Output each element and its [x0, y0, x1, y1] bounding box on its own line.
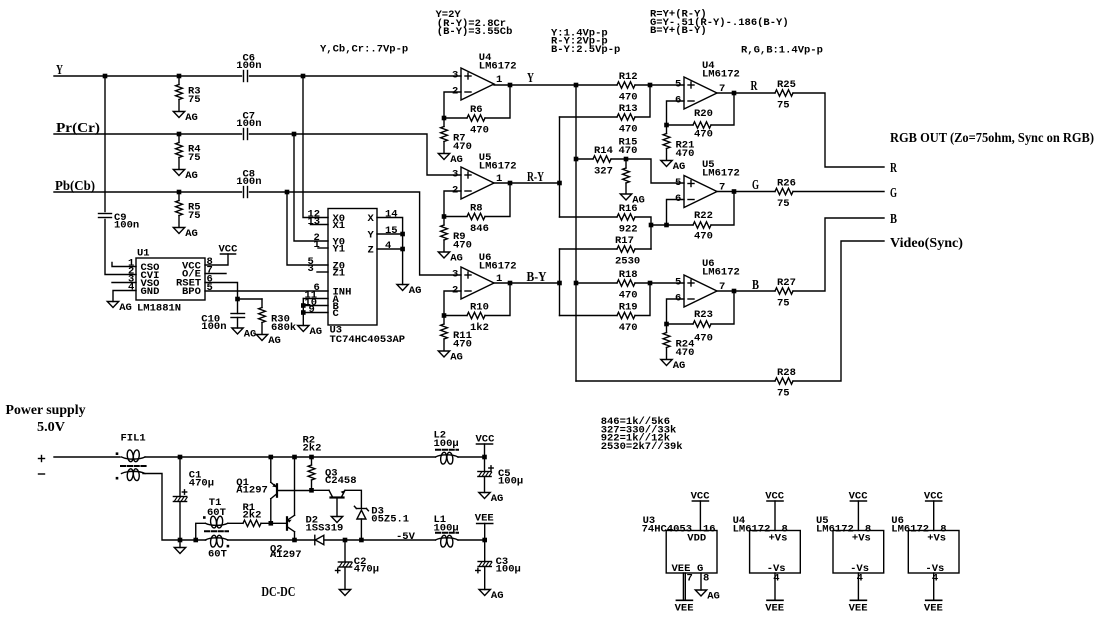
terminal plus	[39, 456, 45, 462]
junction B-Y bus	[557, 281, 562, 286]
wire U5a out R-Y	[494, 182, 560, 184]
junction Y bus top	[574, 83, 579, 88]
wire R17 row	[560, 248, 618, 250]
svg-text:U1: U1	[137, 248, 150, 260]
wire video out	[793, 241, 884, 381]
wire R20 right	[711, 93, 734, 125]
svg-text:RGB OUT (Zo=75ohm, Sync on RGB: RGB OUT (Zo=75ohm, Sync on RGB)	[890, 131, 1094, 146]
svg-text:A1297: A1297	[236, 485, 268, 497]
svg-text:R17: R17	[615, 235, 634, 247]
terminal minus	[39, 473, 45, 475]
wire minus to rail	[143, 474, 180, 541]
phase dot FIL1 bottom	[116, 477, 119, 480]
wire C2 bottom	[344, 567, 346, 590]
svg-text:AG: AG	[185, 112, 198, 124]
svg-text:470: 470	[453, 339, 472, 351]
svg-text:LM6172: LM6172	[816, 524, 854, 536]
capacitor C6	[236, 53, 261, 82]
wire R14 row	[576, 158, 593, 160]
svg-text:470: 470	[694, 129, 713, 141]
svg-text:G: G	[752, 178, 759, 193]
diode D2 1SS319	[306, 515, 344, 545]
wire VCC stem U3	[699, 501, 701, 531]
wire R12 right	[635, 84, 650, 86]
wire VEE stem U4pwr	[774, 573, 776, 600]
junction U4b out	[732, 91, 737, 96]
op-amp U4 second half	[675, 60, 740, 109]
core L2	[436, 449, 458, 451]
resistor R14	[593, 156, 611, 162]
wire C1 stem	[179, 457, 181, 497]
capacitor C9	[99, 214, 112, 218]
svg-text:R10: R10	[470, 302, 489, 314]
transistor Q1 A1297	[236, 477, 311, 499]
svg-text:(B-Y)=3.55Cb: (B-Y)=3.55Cb	[437, 26, 513, 38]
diode D3 zener	[354, 506, 409, 526]
svg-text:AG: AG	[185, 170, 198, 182]
wire VEE stem U3 b	[684, 573, 686, 600]
svg-text:3: 3	[308, 263, 314, 275]
wire C3 stem	[484, 540, 486, 562]
junction T1 left	[193, 538, 198, 543]
wire RSET to R30	[238, 298, 263, 300]
wire Z1 stub	[317, 271, 328, 273]
wire B select	[303, 305, 328, 307]
wire T1 primary left	[196, 523, 206, 540]
ground AG C10	[232, 328, 257, 341]
svg-text:05Z5.1: 05Z5.1	[371, 514, 409, 526]
resistor R5	[176, 192, 201, 227]
wire U4b -in	[667, 101, 685, 125]
ground AG U1 GND	[107, 302, 132, 315]
wire VCC stem U5pwr	[857, 501, 859, 531]
svg-text:VCC: VCC	[219, 244, 239, 256]
junction Pr clamp Y0	[292, 132, 297, 137]
svg-text:15: 15	[385, 225, 398, 237]
IC U3 TC74HC4053AP body	[328, 209, 377, 326]
svg-text:B-Y: B-Y	[527, 270, 547, 285]
resistor R18	[617, 280, 635, 286]
wire R8 right	[485, 183, 510, 217]
svg-text:74HC4053: 74HC4053	[642, 524, 692, 536]
svg-text:X1: X1	[333, 220, 346, 232]
ground frame C2	[339, 590, 350, 596]
svg-text:5: 5	[675, 177, 681, 189]
svg-text:R20: R20	[694, 108, 713, 120]
wire bottom rail left	[180, 539, 206, 541]
wire X1 stub	[311, 224, 329, 226]
svg-text:Y,Cb,Cr:.7Vp-p: Y,Cb,Cr:.7Vp-p	[320, 43, 408, 55]
wire G pin stem	[700, 573, 702, 590]
svg-text:R14: R14	[594, 145, 613, 157]
wire Y1 stub	[318, 247, 328, 249]
svg-text:LM6172: LM6172	[891, 524, 929, 536]
svg-text:4: 4	[773, 573, 779, 585]
svg-text:AG: AG	[409, 285, 422, 297]
wire R1 to Q2 base	[261, 522, 286, 524]
power VEE rail symbol	[475, 513, 494, 525]
resistor R16	[617, 214, 635, 220]
wire U4a out	[494, 84, 617, 86]
ground frame Q3	[331, 517, 342, 523]
svg-text:AG: AG	[185, 228, 198, 240]
phase dot T1 secondary	[227, 545, 230, 548]
svg-text:8: 8	[703, 573, 709, 585]
svg-text:G: G	[890, 186, 897, 201]
ground AG U3 G pin	[695, 590, 720, 603]
wire U1 pin3 VSO stub	[112, 282, 136, 284]
wire Q3 emitter to D3	[345, 490, 361, 508]
svg-text:75: 75	[777, 198, 790, 210]
inductor L2	[436, 452, 459, 464]
svg-text:75: 75	[777, 388, 790, 400]
svg-text:AG: AG	[450, 154, 463, 166]
svg-text:R6: R6	[470, 104, 483, 116]
junction C2 top	[343, 538, 348, 543]
svg-text:470: 470	[470, 125, 489, 137]
svg-text:100n: 100n	[236, 60, 261, 72]
svg-text:R26: R26	[777, 178, 796, 190]
svg-text:R28: R28	[777, 367, 796, 379]
svg-text:14: 14	[385, 209, 398, 221]
resistor R4	[176, 134, 201, 169]
svg-text:922: 922	[619, 224, 638, 236]
svg-text:GND: GND	[141, 286, 160, 298]
ground AG	[438, 154, 463, 167]
wire U6a out B-Y	[494, 282, 560, 284]
resistor R19	[617, 312, 635, 318]
wire plus rail	[145, 456, 435, 458]
wire R20 left	[667, 124, 694, 126]
resistor R6	[467, 115, 485, 121]
power VCC U4pwr	[765, 491, 785, 503]
transformer T1 secondary winding	[205, 535, 228, 547]
wire R8 left	[444, 216, 467, 218]
wire C10 stem	[237, 299, 239, 314]
wire R10 right	[485, 283, 510, 316]
wire R18 row	[576, 282, 617, 284]
resistor R17	[617, 246, 635, 252]
power VCC U6pwr	[924, 491, 944, 503]
svg-text:470µ: 470µ	[189, 478, 214, 490]
junction C select	[301, 310, 306, 315]
wire R14 to G +in	[611, 159, 684, 183]
junction U6b fb node	[664, 322, 669, 327]
svg-text:R25: R25	[777, 79, 796, 91]
junction U5b fb node	[664, 223, 669, 228]
wire R13 up	[635, 85, 650, 117]
wire VCC stem	[484, 444, 486, 457]
op-amp U5 first half	[452, 152, 517, 199]
capacitor C7	[236, 111, 261, 140]
wire X common	[377, 218, 403, 285]
svg-text:100µ: 100µ	[434, 438, 459, 450]
resistor R8	[467, 213, 485, 219]
svg-text:VEE: VEE	[675, 603, 694, 615]
svg-text:R: R	[890, 161, 898, 176]
svg-text:Video(Sync): Video(Sync)	[890, 236, 963, 251]
wire R out	[793, 93, 884, 167]
filter FIL1 bottom winding	[122, 468, 146, 480]
wire U1 pin1 CSO stub	[112, 263, 136, 267]
wire R10 left	[444, 315, 467, 317]
svg-text:FIL1: FIL1	[121, 433, 146, 445]
svg-text:AG: AG	[268, 335, 281, 347]
phase dot T1 primary	[203, 516, 206, 519]
resistor R23	[693, 321, 711, 327]
wire Pb to U6 +in	[250, 192, 462, 275]
wire VEE stem U3 a	[682, 573, 684, 600]
svg-text:Y: Y	[368, 230, 375, 242]
svg-text:327: 327	[594, 166, 613, 178]
wire R2 stem top	[311, 457, 313, 465]
svg-text:-5V: -5V	[396, 531, 416, 543]
svg-text:100µ: 100µ	[498, 476, 523, 488]
svg-text:4: 4	[385, 240, 391, 252]
resistor R22	[693, 222, 711, 228]
svg-text:LM6172: LM6172	[733, 524, 771, 536]
wire VEE stem U5pwr	[857, 573, 859, 600]
resistor R9	[441, 217, 472, 252]
svg-text:AG: AG	[707, 591, 720, 603]
op-amp U6 second half	[675, 258, 740, 307]
svg-text:VEE: VEE	[765, 603, 784, 615]
ground AG	[173, 228, 198, 241]
wire R13 row	[560, 116, 618, 118]
wire R16 right	[635, 217, 651, 249]
junction Z common	[400, 247, 405, 252]
svg-text:13: 13	[308, 216, 321, 228]
svg-text:Y: Y	[527, 71, 534, 86]
ground AG C3	[479, 590, 504, 603]
svg-text:R12: R12	[619, 71, 638, 83]
svg-text:LM6172: LM6172	[479, 161, 517, 173]
svg-text:AG: AG	[491, 590, 504, 602]
filter FIL1 top winding	[122, 450, 146, 462]
svg-text:R27: R27	[777, 277, 796, 289]
resistor R3	[176, 76, 201, 111]
resistor R27	[775, 288, 793, 294]
svg-text:R18: R18	[619, 269, 638, 281]
resistor R24	[663, 324, 694, 359]
svg-text:4: 4	[932, 573, 938, 585]
wire Q1 emitter	[270, 457, 272, 482]
svg-text:B: B	[890, 212, 897, 227]
resistor R10	[467, 312, 485, 318]
wire C5 stem	[484, 457, 486, 472]
svg-text:+Vs: +Vs	[769, 533, 788, 545]
wire R23 right	[711, 291, 734, 324]
wire U1 pin6 RSET	[205, 283, 238, 300]
svg-text:AG: AG	[310, 326, 323, 338]
wire B out	[793, 218, 884, 291]
svg-text:R23: R23	[694, 309, 713, 321]
svg-text:VDD: VDD	[687, 533, 706, 545]
svg-text:75: 75	[188, 210, 201, 222]
wire bottom rail mid	[228, 539, 314, 541]
wire C1 bottom	[179, 502, 181, 541]
wire C9 to U1 CVI	[105, 220, 136, 275]
wire Z common	[377, 248, 403, 250]
svg-text:Z: Z	[368, 245, 374, 257]
wire Q1 collector	[270, 499, 272, 524]
power VCC U1	[219, 244, 239, 256]
junction Q2 collector rail	[292, 538, 297, 543]
svg-text:470: 470	[453, 141, 472, 153]
svg-text:Power supply: Power supply	[6, 403, 86, 418]
svg-text:75: 75	[188, 152, 201, 164]
transistor Q3 C2458	[325, 468, 357, 498]
resistor R20	[693, 122, 711, 128]
wire R18 right	[635, 282, 650, 284]
svg-text:75: 75	[777, 298, 790, 310]
wire R17 right	[635, 248, 651, 250]
svg-text:5.0V: 5.0V	[37, 420, 65, 435]
resistor R15	[619, 137, 638, 194]
junction U4a fb	[442, 116, 447, 121]
svg-text:75: 75	[188, 94, 201, 106]
svg-text:100n: 100n	[236, 118, 261, 130]
power VCC rail symbol	[476, 434, 496, 446]
resistor R13	[617, 114, 635, 120]
svg-text:A1297: A1297	[270, 549, 302, 561]
svg-text:75: 75	[777, 100, 790, 112]
svg-text:5: 5	[675, 277, 681, 289]
ground AG XYZ	[397, 285, 422, 298]
wire VCC stem U6pwr	[933, 501, 935, 531]
svg-text:R19: R19	[619, 302, 638, 314]
wire R6 right	[485, 85, 510, 118]
svg-text:1: 1	[314, 239, 320, 251]
svg-text:680k: 680k	[271, 322, 296, 334]
capacitor C2	[336, 562, 353, 573]
svg-text:4: 4	[857, 573, 863, 585]
svg-text:LM6172: LM6172	[479, 61, 517, 73]
wire R19 up	[635, 283, 650, 316]
wire VCC stem U4pwr	[774, 501, 776, 531]
svg-text:470: 470	[619, 124, 638, 136]
svg-text:470: 470	[619, 290, 638, 302]
resistor R11	[441, 316, 472, 351]
wire U1 pin8 VCC	[205, 254, 228, 265]
svg-text:+Vs: +Vs	[927, 533, 946, 545]
wire T1 primary right	[228, 522, 243, 524]
svg-text:3: 3	[452, 70, 458, 82]
junction Y bus R18	[574, 281, 579, 286]
resistor R25	[775, 90, 793, 96]
svg-text:470: 470	[694, 333, 713, 345]
junction Pb clamp Z0	[285, 190, 290, 195]
resistor R2	[303, 435, 322, 481]
wire Q2 emitter	[294, 457, 296, 515]
svg-text:R8: R8	[470, 203, 483, 215]
wire Q3 base stem	[336, 499, 338, 517]
svg-text:1k2: 1k2	[470, 322, 489, 334]
svg-text:100µ: 100µ	[496, 564, 521, 576]
power VCC U5pwr	[849, 491, 869, 503]
wire to U4b +in	[650, 84, 684, 86]
svg-text:AG: AG	[673, 161, 686, 173]
junction R12/R13	[648, 83, 653, 88]
wire L2 to VCC node	[458, 456, 485, 458]
junction VEE node	[482, 538, 487, 543]
wire Y input	[54, 75, 242, 77]
svg-text:B: B	[752, 278, 759, 293]
power VCC U3	[691, 491, 711, 503]
power VEE U6pwr	[924, 600, 943, 614]
svg-text:AG: AG	[491, 493, 504, 505]
capacitor C1	[173, 490, 187, 502]
svg-text:LM6172: LM6172	[702, 69, 740, 81]
wire U4b out	[717, 92, 775, 94]
svg-text:AG: AG	[450, 352, 463, 364]
svg-text:R: R	[751, 79, 759, 94]
ground AG	[256, 335, 281, 348]
junction D3 rail	[359, 538, 364, 543]
svg-text:+Vs: +Vs	[852, 533, 871, 545]
wire Pr to Y0	[294, 134, 328, 241]
wire Y to U4 +in	[250, 75, 462, 77]
core FIL1	[121, 465, 146, 467]
junction Y/C9	[103, 74, 108, 79]
junction Q1 collector R1	[269, 521, 274, 526]
wire Pb input	[54, 191, 242, 193]
svg-text:TC74HC4053AP: TC74HC4053AP	[330, 334, 406, 346]
wire Pb to Z0	[287, 192, 328, 265]
wire U1 pin4 GND	[113, 291, 136, 302]
ground AG	[438, 351, 463, 364]
svg-text:2530: 2530	[615, 256, 640, 268]
junction R2 Q1 base Q3	[309, 488, 314, 493]
junction Y clamp X0	[301, 74, 306, 79]
wire Y common	[377, 233, 403, 235]
junction Pr/R4	[177, 132, 182, 137]
junction R14/R15	[624, 157, 629, 162]
svg-text:VEE: VEE	[849, 603, 868, 615]
resistor R1	[243, 520, 261, 526]
svg-text:VCC: VCC	[476, 434, 496, 446]
svg-text:470: 470	[694, 231, 713, 243]
svg-text:LM6172: LM6172	[702, 168, 740, 180]
ground frame C1	[174, 548, 185, 554]
wire U5b out	[717, 191, 775, 193]
svg-text:470µ: 470µ	[354, 564, 379, 576]
svg-text:Y1: Y1	[333, 244, 346, 256]
wire U4a fb -in	[444, 92, 461, 118]
op-amp U5 second half	[675, 159, 740, 208]
ground AG	[173, 112, 198, 125]
svg-text:LM1881N: LM1881N	[137, 303, 181, 315]
power VEE U5pwr	[849, 600, 868, 614]
wire R-Y bus	[559, 117, 561, 217]
junction B select	[301, 303, 306, 308]
wire C5 bottom	[484, 477, 486, 493]
svg-text:5: 5	[207, 282, 213, 294]
svg-text:X: X	[368, 213, 375, 225]
junction C1 top	[178, 455, 183, 460]
svg-text:B-Y:2.5Vp-p: B-Y:2.5Vp-p	[551, 44, 620, 56]
core L1	[436, 532, 458, 534]
svg-text:470: 470	[619, 322, 638, 334]
svg-text:100µ: 100µ	[434, 523, 459, 535]
svg-text:VEE: VEE	[924, 603, 943, 615]
wire VEE stem	[484, 524, 486, 541]
wire video row	[576, 380, 775, 382]
ground AG R15	[620, 194, 645, 207]
svg-text:R,G,B:1.4Vp-p: R,G,B:1.4Vp-p	[741, 45, 823, 57]
wire C3 bottom	[484, 567, 486, 590]
svg-text:DC-DC: DC-DC	[261, 585, 295, 600]
